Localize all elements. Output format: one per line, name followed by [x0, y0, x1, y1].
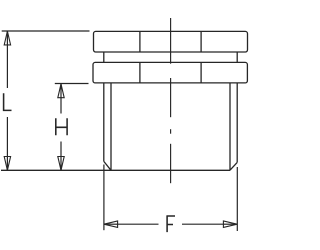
H top extension line	[55, 83, 89, 85]
label H	[56, 118, 67, 135]
hex flange lower band	[93, 62, 247, 83]
F right extension line	[236, 167, 238, 231]
H top arrowhead	[58, 84, 64, 98]
base line: body bottom edge + extension line for L and H	[1, 169, 230, 171]
F dimension line right segment	[182, 223, 237, 225]
neck right edge	[236, 52, 238, 62]
L bottom arrowhead	[4, 157, 10, 171]
label F	[166, 216, 175, 232]
H bottom arrowhead	[58, 157, 64, 171]
lower band right facet line	[200, 63, 202, 83]
body outer right edge (thread major)	[236, 83, 238, 162]
neck left edge	[103, 52, 105, 62]
center line (dash-dot axis)	[170, 18, 172, 183]
body inner left edge	[110, 83, 112, 170]
lower band left facet line	[139, 63, 141, 83]
hex head upper band	[94, 31, 248, 52]
L dimension line lower segment	[6, 117, 8, 170]
L top arrowhead	[4, 31, 10, 45]
H dimension line upper segment	[60, 84, 62, 113]
body right chamfer	[230, 162, 237, 170]
body inner right edge	[229, 83, 231, 170]
top extension line for L	[2, 30, 90, 32]
label L	[4, 93, 12, 110]
upper band left facet line	[139, 32, 141, 52]
upper band right facet line	[200, 32, 202, 52]
body outer left edge (thread major)	[103, 83, 105, 161]
F dimension line left segment	[104, 223, 158, 225]
F left arrowhead	[104, 221, 118, 227]
F right arrowhead	[223, 221, 237, 227]
L dimension line upper segment	[6, 32, 8, 88]
F left extension line	[103, 165, 105, 231]
H dimension line lower segment	[60, 142, 62, 170]
body left chamfer	[104, 161, 111, 170]
